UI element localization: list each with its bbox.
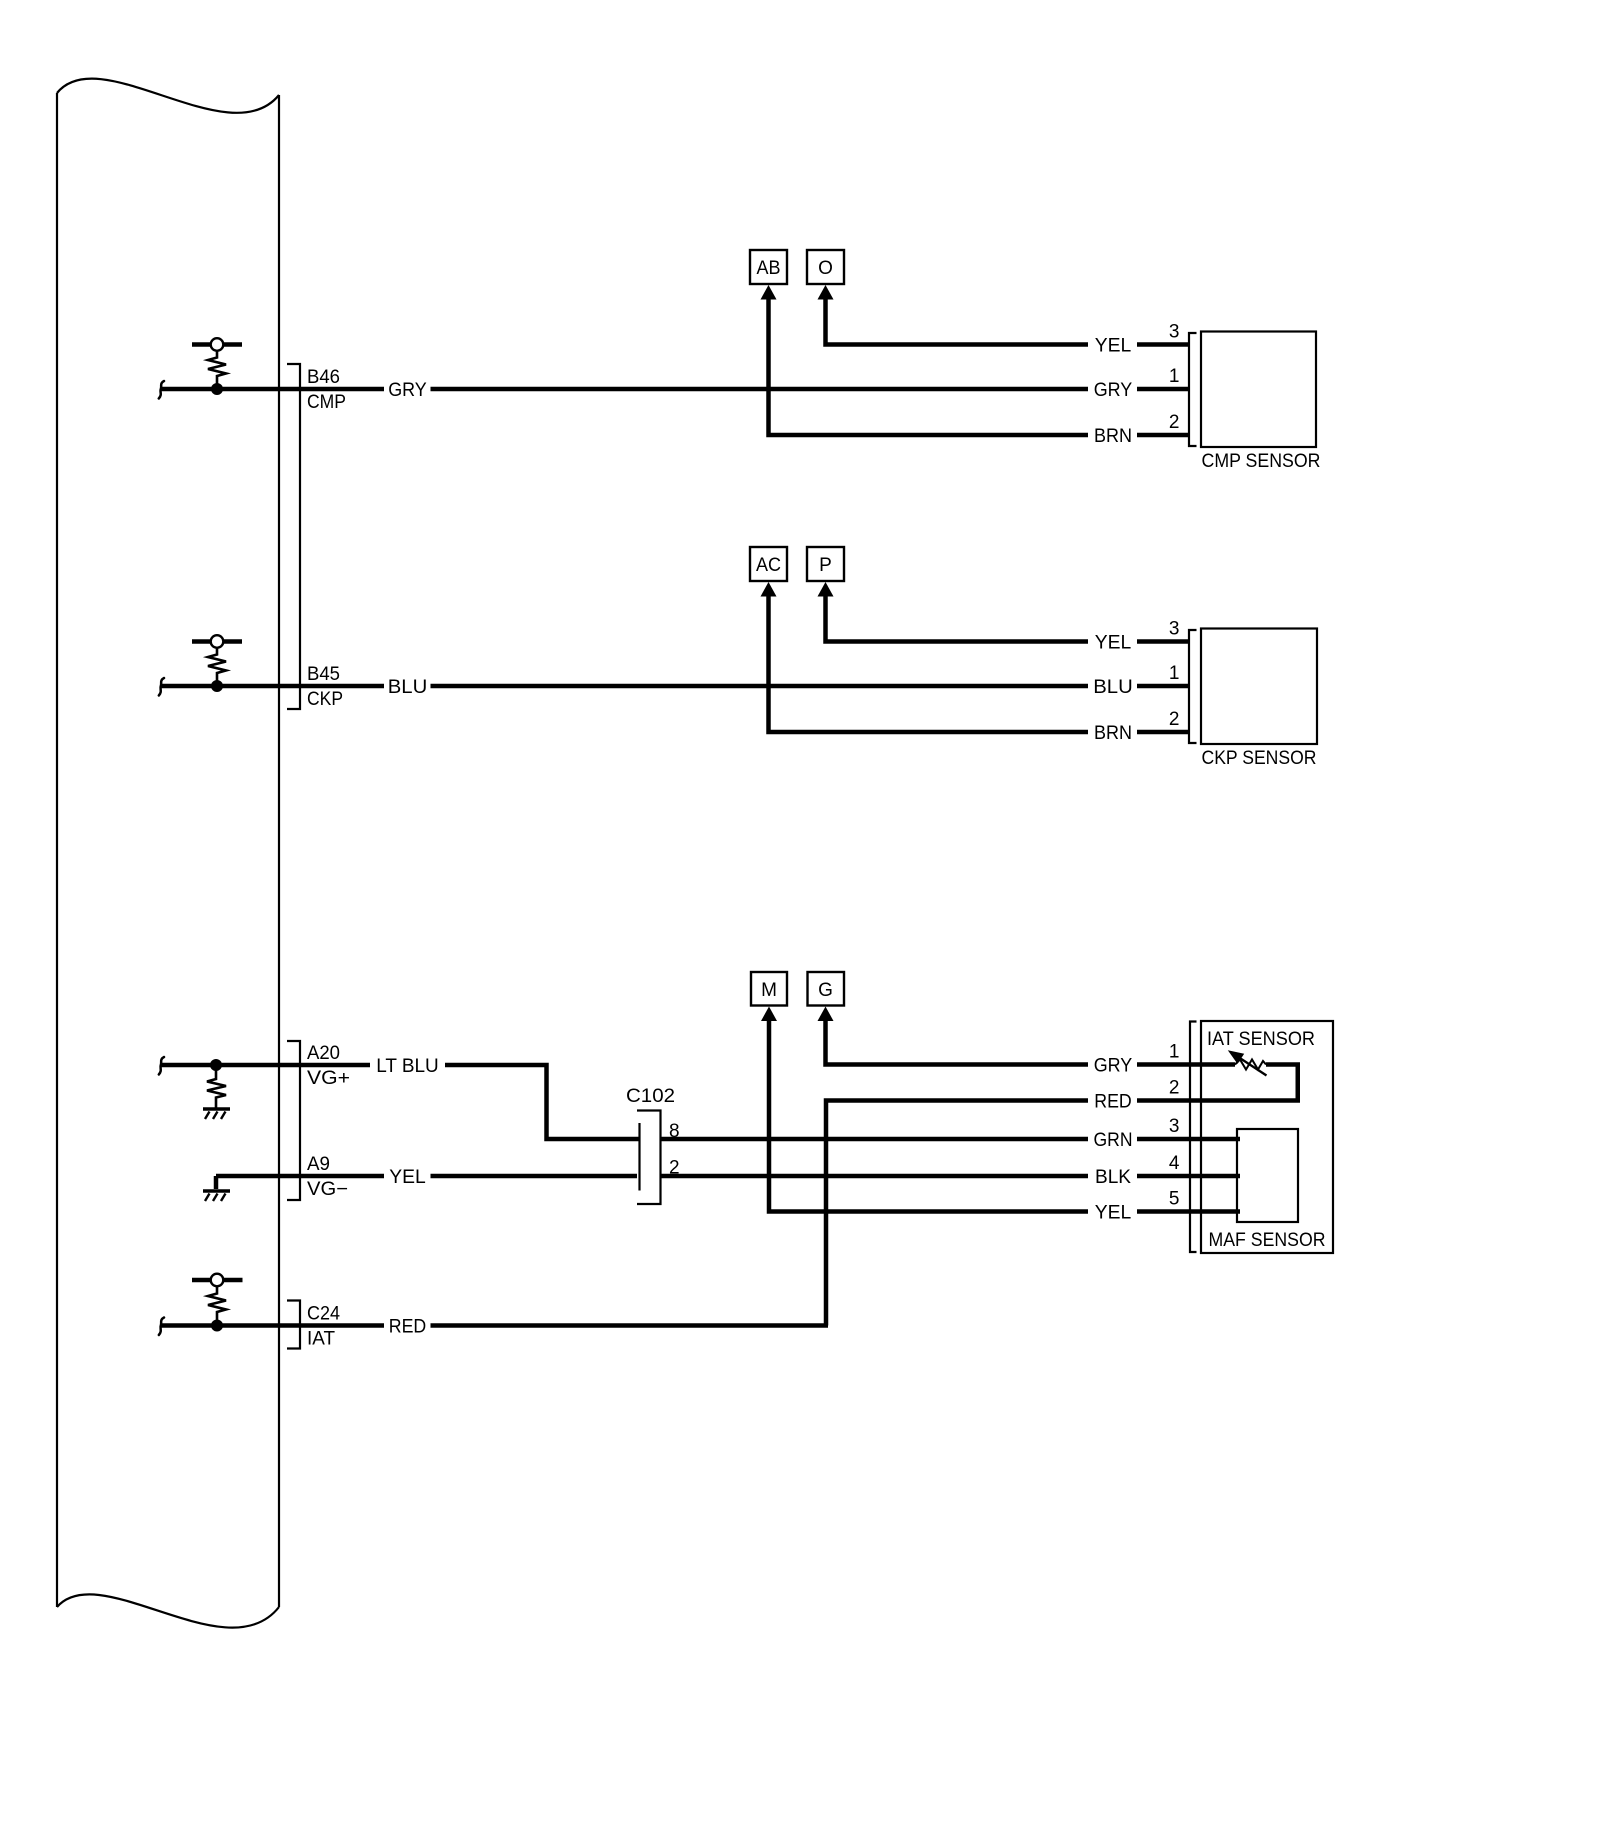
connector bracket A20/A9 [287,1041,300,1200]
svg-text:YEL: YEL [1095,335,1132,357]
svg-text:3: 3 [1169,619,1180,640]
svg-text:LT BLU: LT BLU [376,1055,439,1077]
svg-text:2: 2 [1169,1078,1180,1099]
svg-text:BLU: BLU [388,676,428,698]
wire A9 internal [216,1174,300,1179]
wire B46 internal [160,387,300,392]
resistor C24 zigzag [208,1287,226,1322]
ECM harness band (torn strip) [57,79,279,1628]
wire RED segment mid [826,1101,1088,1326]
svg-text:P: P [819,555,832,576]
junction A20 [210,1059,222,1071]
junction B45 [211,680,223,692]
svg-text:4: 4 [1169,1153,1180,1174]
wire BRN from AB arrow [769,299,1089,436]
svg-text:3: 3 [1169,1116,1180,1137]
svg-text:BLK: BLK [1095,1166,1131,1188]
wire YEL from M arrow [769,1020,1088,1212]
wire GRN segment mid [662,1137,1089,1142]
wire BLK segment mid [662,1174,1089,1179]
wire YEL from O arrow [826,299,1089,345]
wire YEL segment pin5 [1137,1209,1240,1214]
wire GRY segment pin1 [1137,387,1188,392]
ground A9 [203,1176,230,1201]
CMP sensor box [1201,332,1316,448]
wire BLU segment mid [431,684,1089,689]
svg-text:5: 5 [1169,1189,1180,1210]
pull-up resistor B46 (bar) [192,342,242,346]
wire BLU segment left [300,684,384,689]
arrow to AC [761,582,777,597]
svg-text:BRN: BRN [1094,425,1132,447]
wire break squiggle C24 [159,1318,164,1336]
wire BLU segment pin1 [1137,684,1188,689]
CKP sensor connector bracket [1189,630,1197,743]
arrow to O [818,285,834,300]
svg-text:O: O [818,258,833,279]
thermistor IAT zigzag [1235,1060,1266,1070]
svg-text:B45: B45 [307,663,340,685]
arrow to G [818,1007,834,1022]
svg-text:RED: RED [1094,1091,1132,1113]
pull-up resistor B45 (bar) [192,639,242,643]
wire BLK segment pin4 [1137,1174,1240,1179]
svg-text:YEL: YEL [389,1166,426,1188]
resistor B45 zigzag [208,648,226,682]
svg-text:IAT SENSOR: IAT SENSOR [1207,1028,1315,1050]
connector G box [808,972,845,1006]
svg-text:IAT: IAT [307,1328,335,1350]
svg-text:M: M [761,980,777,1001]
svg-text:GRY: GRY [388,379,427,401]
wire RED segment left [300,1323,384,1328]
svg-text:YEL: YEL [1095,632,1132,654]
connector AC box [750,547,787,581]
wire YEL segment pin3 ckp [1137,639,1188,644]
wire RED inside IAT sensor [1137,1098,1300,1103]
svg-text:AB: AB [757,258,781,279]
pull-up resistor C24 (bar) [192,1278,243,1282]
wire BRN segment pin2 [1137,433,1188,438]
svg-text:C24: C24 [307,1303,340,1325]
svg-text:MAF SENSOR: MAF SENSOR [1209,1229,1326,1251]
wire GRY from G arrow [826,1020,1089,1065]
svg-text:CKP SENSOR: CKP SENSOR [1202,747,1317,769]
svg-text:YEL: YEL [1095,1202,1132,1224]
MAF sensor outer box [1201,1021,1333,1253]
wire break squiggle B46 [159,381,164,399]
MAF sensor inner box [1237,1129,1298,1222]
wire break squiggle B45 [159,678,164,696]
wire break squiggle A20 [159,1057,164,1075]
arrow to AB [761,285,777,300]
arrow to P [818,582,834,597]
wire GRY inside IAT sensor [1266,1065,1298,1101]
connector C102 [637,1111,661,1205]
connector bracket C24 [287,1301,300,1349]
connector O box [807,250,844,284]
CKP sensor box [1201,629,1317,745]
wire YEL from P arrow [826,596,1089,642]
svg-text:VG−: VG− [307,1178,348,1200]
wire BRN segment pin2 ckp [1137,730,1188,735]
wire B45 internal [160,684,300,689]
resistor A20 zigzag [207,1068,226,1108]
wire YEL segment left A9 [300,1174,384,1179]
connector AB box [750,250,787,284]
svg-text:A9: A9 [307,1153,330,1175]
wire GRY segment pin1 [1137,1062,1235,1067]
wire GRN segment pin3 [1137,1137,1240,1142]
svg-text:1: 1 [1169,366,1180,387]
svg-text:AC: AC [756,555,781,576]
wire GRY segment mid [431,387,1089,392]
svg-text:BLU: BLU [1093,676,1133,698]
arrow to M [761,1007,777,1022]
junction B46 [211,383,223,395]
svg-text:G: G [818,980,833,1001]
wire RED segment mid2 [431,1323,829,1328]
connector P box [807,547,844,581]
svg-text:GRY: GRY [1094,379,1133,401]
svg-text:A20: A20 [307,1042,340,1064]
svg-text:VG+: VG+ [307,1067,350,1089]
pull-up circle B45 [211,635,224,648]
svg-text:2: 2 [1169,412,1180,433]
pull-up circle B46 [211,338,224,351]
wire C24 internal [160,1323,300,1328]
svg-text:3: 3 [1169,322,1180,343]
svg-text:CMP SENSOR: CMP SENSOR [1202,450,1321,472]
wire YEL to C102 pin 2 [431,1174,638,1179]
pull-up circle C24 [211,1274,224,1287]
svg-text:1: 1 [1169,663,1180,684]
svg-text:CKP: CKP [307,688,343,710]
CMP sensor connector bracket [1189,333,1197,446]
wire LT BLU to C102 pin 8 [445,1065,639,1139]
svg-text:B46: B46 [307,366,340,388]
svg-text:C102: C102 [626,1085,675,1107]
wire GRY segment left [300,387,384,392]
svg-text:GRN: GRN [1094,1129,1133,1151]
junction C24 [211,1320,223,1332]
thermistor IAT arrow [1228,1050,1267,1075]
svg-text:CMP: CMP [307,391,346,413]
connector bracket B46/B45 [287,364,300,709]
wire BRN from AC arrow [769,596,1089,733]
svg-text:1: 1 [1169,1042,1180,1063]
wire YEL segment pin3 [1137,342,1188,347]
svg-text:GRY: GRY [1094,1055,1133,1077]
MAF sensor connector bracket [1190,1022,1197,1253]
wire LT BLU segment left [300,1063,370,1068]
connector M box [751,972,787,1006]
ground A20 [203,1109,230,1119]
svg-text:2: 2 [1169,709,1180,730]
wire A20 internal [160,1063,300,1068]
svg-text:RED: RED [389,1316,427,1338]
resistor B46 zigzag [208,351,226,385]
svg-text:BRN: BRN [1094,722,1132,744]
